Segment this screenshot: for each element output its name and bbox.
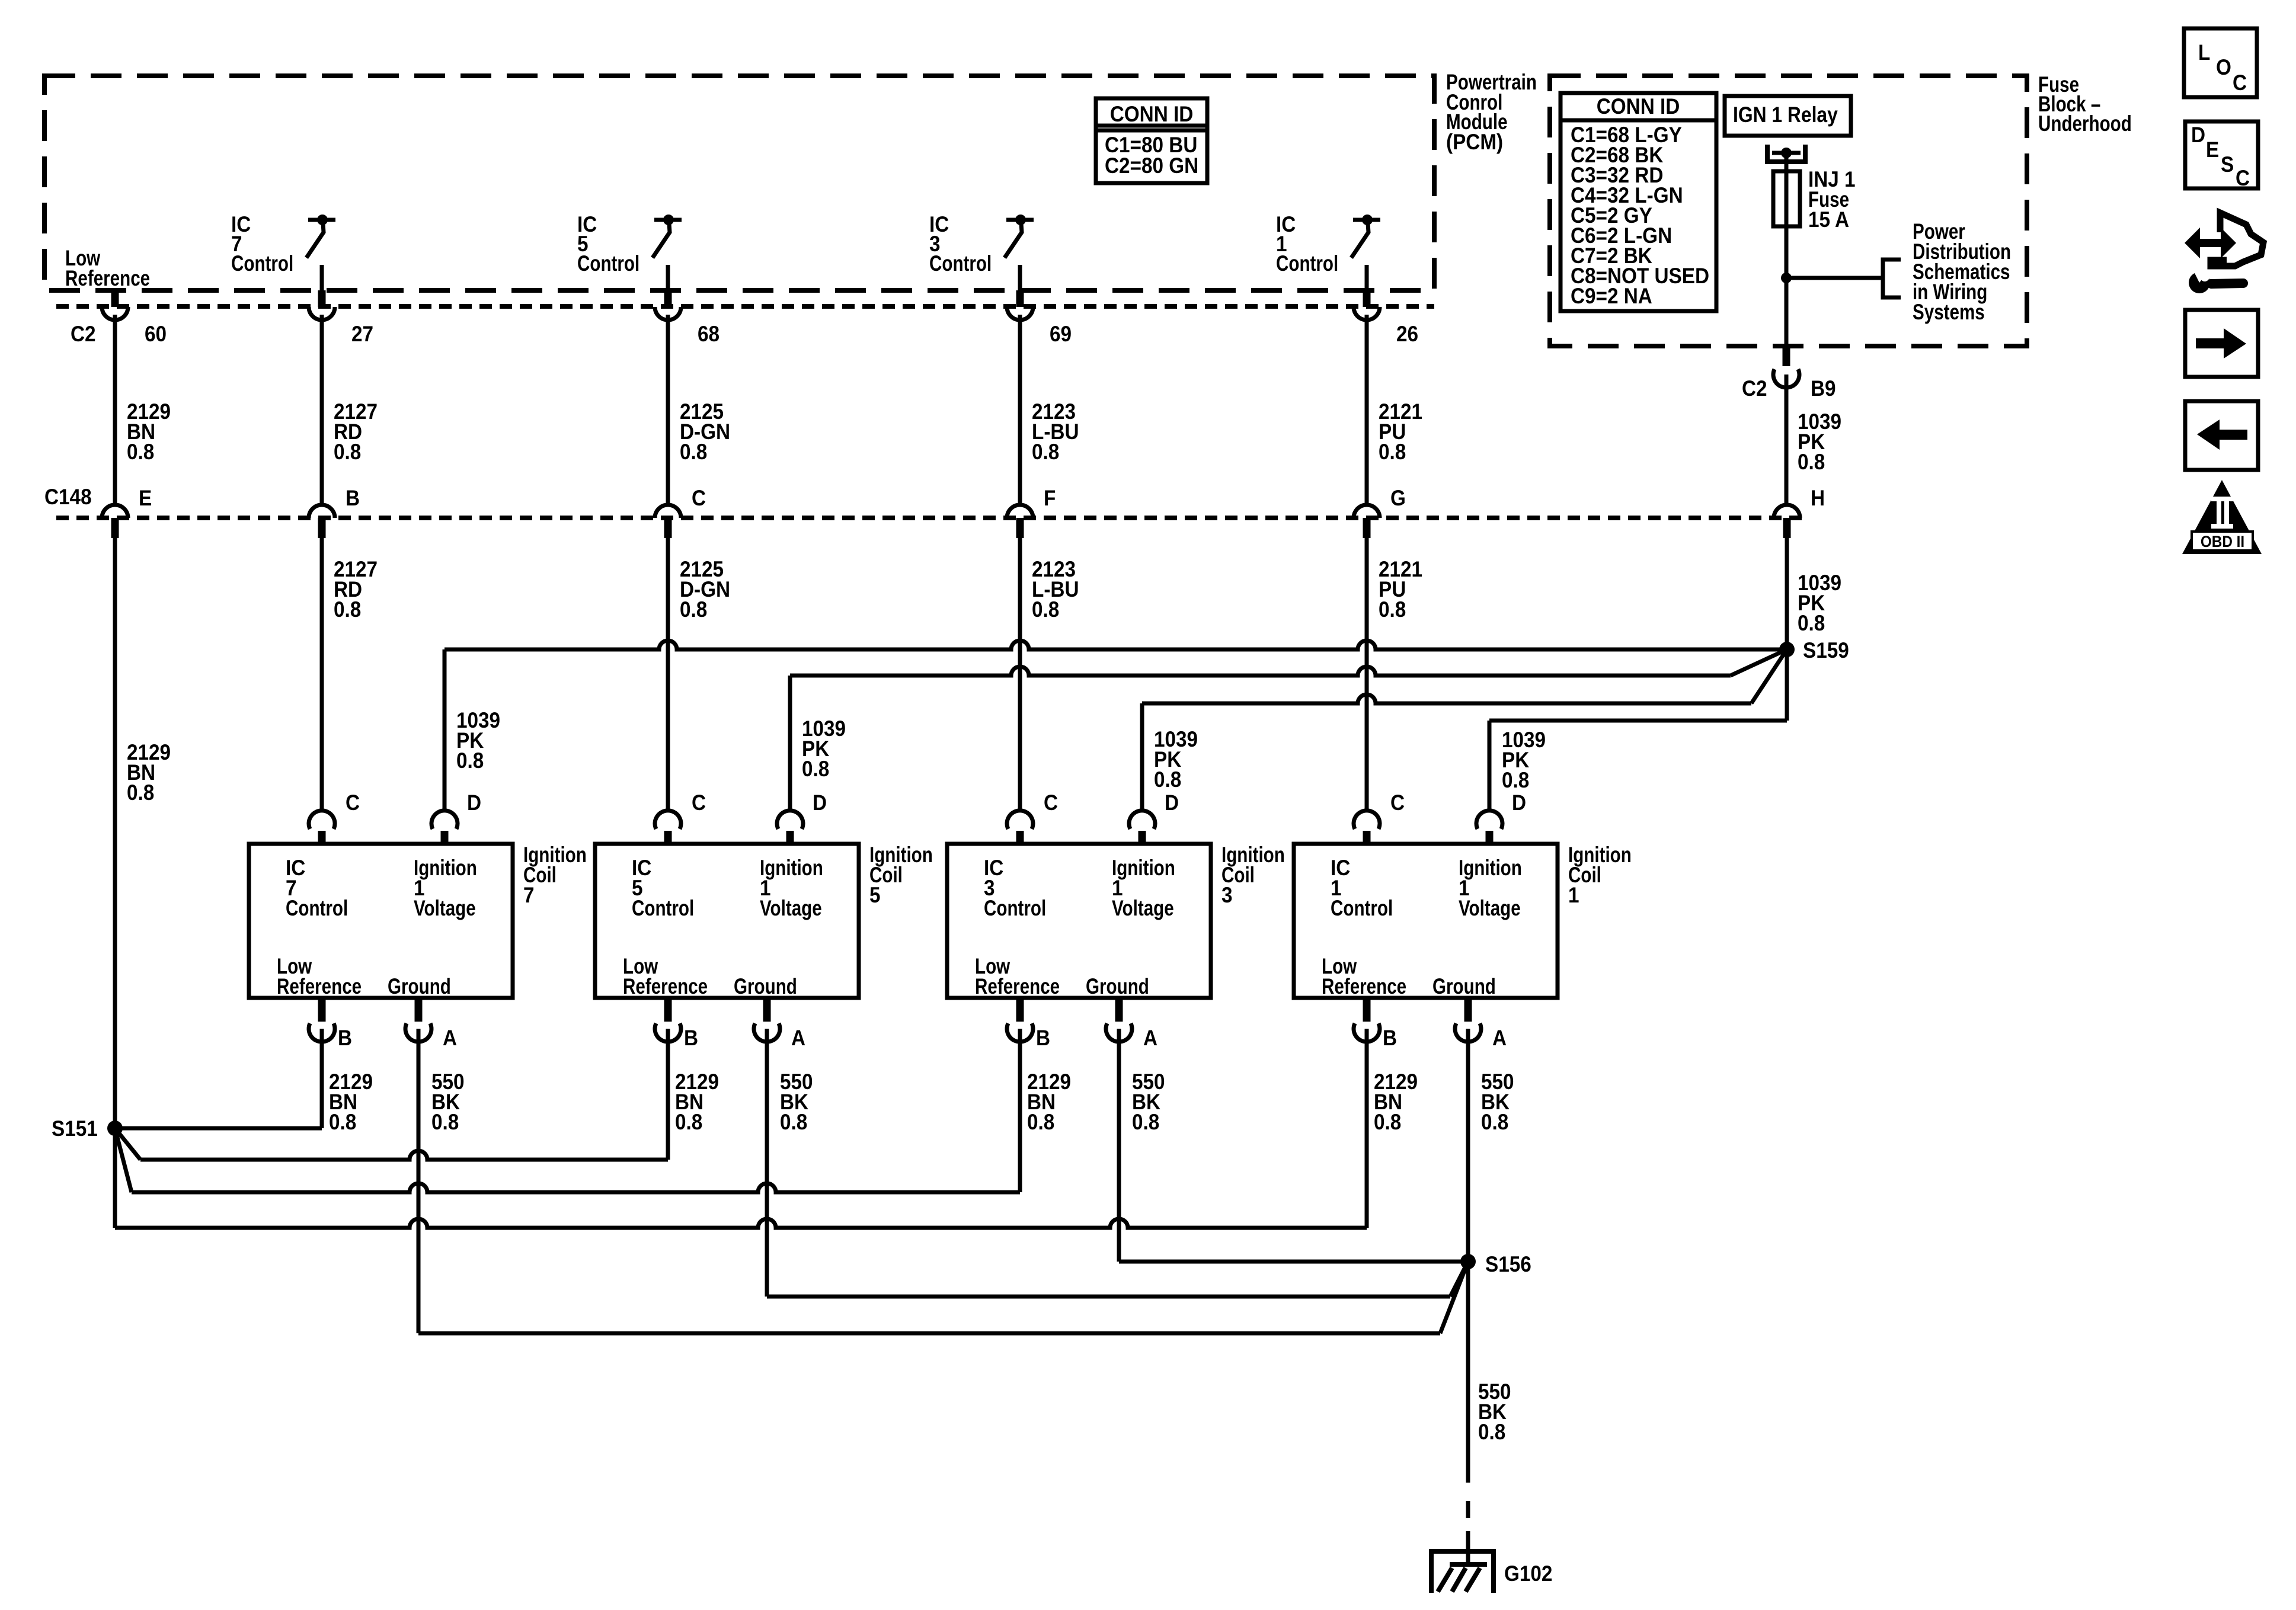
svg-text:Voltage: Voltage bbox=[414, 897, 476, 921]
svg-text:Reference: Reference bbox=[65, 267, 150, 291]
svg-text:26: 26 bbox=[1396, 322, 1418, 346]
svg-text:IGN 1 Relay: IGN 1 Relay bbox=[1733, 103, 1838, 127]
svg-text:0.8: 0.8 bbox=[431, 1110, 459, 1134]
svg-text:O: O bbox=[2216, 55, 2231, 79]
wire 550 BK below coil 7 pin A bbox=[431, 1070, 465, 1134]
wire 2129 BN below coil 7 pin B bbox=[329, 1070, 373, 1134]
wire 2125 D-GN from C148 to ignition coil bbox=[668, 538, 730, 812]
svg-text:S151: S151 bbox=[52, 1116, 98, 1141]
svg-text:OBD II: OBD II bbox=[2201, 533, 2244, 550]
connector C148 pin B bbox=[309, 486, 360, 538]
wire 2125 D-GN from C2 to C148 bbox=[668, 315, 730, 504]
svg-text:Voltage: Voltage bbox=[1112, 897, 1174, 921]
svg-text:0.8: 0.8 bbox=[1132, 1110, 1159, 1134]
svg-text:B: B bbox=[338, 1026, 352, 1050]
branch to Power Distribution Schematics reference bbox=[1786, 220, 2011, 325]
svg-text:0.8: 0.8 bbox=[127, 780, 154, 805]
svg-text:D: D bbox=[467, 790, 481, 815]
coil 3 pin A connector bbox=[1106, 998, 1157, 1050]
connector C148 pin E bbox=[102, 486, 152, 538]
ignition coil 1 box bbox=[1294, 843, 1632, 999]
svg-text:C2: C2 bbox=[71, 322, 96, 346]
wire 1039 PK riser to coil pin D at x=1333 bbox=[790, 676, 846, 812]
bus wire from S159 to ignition coil 5 pin D bbox=[790, 649, 1787, 676]
svg-text:1: 1 bbox=[1568, 883, 1579, 907]
svg-text:S159: S159 bbox=[1803, 638, 1849, 662]
connector C148 pin H bbox=[1774, 486, 1825, 538]
svg-text:B: B bbox=[1383, 1026, 1397, 1050]
svg-text:Ground: Ground bbox=[388, 975, 451, 999]
svg-text:H: H bbox=[1811, 486, 1825, 510]
svg-text:0.8: 0.8 bbox=[1374, 1110, 1401, 1134]
label Fuse Block - Underhood bbox=[2038, 73, 2132, 136]
svg-text:0.8: 0.8 bbox=[1502, 768, 1529, 792]
icon forward arrow box bbox=[2185, 310, 2258, 377]
ignition coil 5 box bbox=[595, 843, 933, 999]
icon DESC box bbox=[2185, 121, 2258, 190]
svg-text:C9=2 NA: C9=2 NA bbox=[1571, 284, 1652, 308]
bus wire from S159 to ignition coil 3 pin D bbox=[1142, 649, 1787, 703]
connector C2 pin 69 bbox=[1007, 290, 1072, 346]
coil 7 pin A connector bbox=[405, 998, 457, 1050]
svg-text:0.8: 0.8 bbox=[802, 757, 829, 781]
svg-text:Control: Control bbox=[286, 897, 348, 921]
wire from S151 to coil 7 pin B bbox=[115, 1029, 322, 1128]
wire 1039 PK riser to coil pin D at x=750 bbox=[445, 649, 500, 812]
switch IC 3 Control inside PCM bbox=[929, 212, 1034, 290]
Fuse Block - Underhood dashed box bbox=[1550, 76, 2027, 346]
svg-text:(PCM): (PCM) bbox=[1446, 130, 1503, 154]
svg-text:Reference: Reference bbox=[975, 975, 1060, 999]
icon diagnostic wrench with arrows bbox=[2185, 213, 2263, 293]
wire 2129 BN below coil 3 pin B bbox=[1027, 1070, 1071, 1134]
svg-text:D: D bbox=[2191, 123, 2205, 147]
svg-text:0.8: 0.8 bbox=[780, 1110, 807, 1134]
ignition coil 3 box bbox=[947, 843, 1285, 999]
connector C148 pin F bbox=[1007, 486, 1056, 538]
svg-text:27: 27 bbox=[351, 322, 373, 346]
Fuse block CONN ID table bbox=[1560, 93, 1716, 311]
connector C2 dotted line bbox=[56, 306, 1434, 346]
svg-text:C148: C148 bbox=[44, 485, 92, 509]
splice S159 bbox=[1779, 638, 1849, 662]
wire 550 BK below coil 5 pin A bbox=[780, 1070, 813, 1134]
svg-text:5: 5 bbox=[869, 883, 881, 907]
svg-text:0.8: 0.8 bbox=[1027, 1110, 1054, 1134]
coil 1 pin B connector bbox=[1354, 998, 1397, 1050]
svg-text:C2: C2 bbox=[1742, 376, 1767, 401]
svg-text:15 A: 15 A bbox=[1808, 207, 1849, 232]
svg-text:A: A bbox=[791, 1026, 805, 1050]
svg-text:S156: S156 bbox=[1485, 1252, 1531, 1276]
svg-text:G: G bbox=[1390, 486, 1406, 510]
wire 1039 PK riser to coil pin D at x=2513 bbox=[1489, 721, 1546, 812]
svg-text:B: B bbox=[346, 486, 360, 510]
svg-text:Control: Control bbox=[929, 252, 992, 276]
svg-text:0.8: 0.8 bbox=[334, 597, 361, 622]
svg-text:D: D bbox=[1165, 790, 1179, 815]
icon LOC box bbox=[2184, 28, 2257, 97]
wire 2123 L-BU from C148 to ignition coil bbox=[1020, 538, 1079, 812]
bus wire from S159 to ignition coil 1 pin D bbox=[1489, 649, 1787, 721]
svg-text:B: B bbox=[1036, 1026, 1050, 1050]
icon back arrow box bbox=[2185, 401, 2258, 470]
svg-text:0.8: 0.8 bbox=[1032, 440, 1059, 464]
svg-text:A: A bbox=[443, 1026, 457, 1050]
svg-text:0.8: 0.8 bbox=[334, 440, 361, 464]
svg-text:0.8: 0.8 bbox=[680, 597, 707, 622]
svg-text:C: C bbox=[1044, 790, 1058, 815]
ground G102 bbox=[1429, 1551, 1552, 1593]
PCM pin label Low Reference bbox=[65, 247, 150, 291]
relay IGN 1 Relay box bbox=[1725, 96, 1851, 136]
svg-text:B: B bbox=[684, 1026, 698, 1050]
switch IC 1 Control inside PCM bbox=[1276, 212, 1380, 290]
svg-text:3: 3 bbox=[1221, 883, 1233, 907]
bus wire from S159 to ignition coil 7 pin D bbox=[445, 641, 1787, 649]
relay contact bracket bbox=[1767, 145, 1805, 171]
svg-text:G102: G102 bbox=[1504, 1561, 1552, 1586]
svg-text:E: E bbox=[139, 486, 152, 510]
wire from S151 to coil 3 pin B bbox=[115, 1029, 1020, 1192]
svg-text:0.8: 0.8 bbox=[1481, 1110, 1508, 1134]
svg-text:60: 60 bbox=[145, 322, 167, 346]
svg-text:C2=80 GN: C2=80 GN bbox=[1105, 153, 1198, 178]
fuse INJ 1 Fuse 15 A bbox=[1773, 167, 1856, 232]
svg-text:Control: Control bbox=[984, 897, 1046, 921]
connector C2 pin B9 below fuse block bbox=[1742, 346, 1836, 401]
svg-text:Control: Control bbox=[632, 897, 694, 921]
svg-text:A: A bbox=[1143, 1026, 1157, 1050]
svg-text:CONN ID: CONN ID bbox=[1110, 102, 1194, 126]
svg-text:Control: Control bbox=[231, 252, 293, 276]
svg-text:Reference: Reference bbox=[1322, 975, 1406, 999]
wire 2121 PU from C148 to ignition coil bbox=[1367, 538, 1422, 812]
wire 2121 PU from C2 to C148 bbox=[1367, 315, 1422, 504]
icon OBD II triangle bbox=[2182, 480, 2262, 554]
svg-text:CONN ID: CONN ID bbox=[1597, 94, 1680, 119]
svg-text:L: L bbox=[2198, 40, 2210, 65]
svg-text:0.8: 0.8 bbox=[675, 1110, 702, 1134]
svg-text:C: C bbox=[346, 790, 360, 815]
coil 7 pin C connector bbox=[309, 790, 360, 844]
wire 550 BK below coil 3 pin A bbox=[1132, 1070, 1165, 1134]
connector C2 pin 68 bbox=[655, 290, 720, 346]
connector C2 pin 26 bbox=[1354, 290, 1418, 346]
wire 2129 BN below coil 1 pin B bbox=[1374, 1070, 1418, 1134]
wire 1039 PK from C2/B9 to C148 pin H bbox=[1786, 375, 1841, 504]
wire 2123 L-BU from C2 to C148 bbox=[1020, 315, 1079, 504]
svg-text:S: S bbox=[2221, 152, 2234, 177]
svg-text:B9: B9 bbox=[1811, 376, 1836, 401]
svg-text:Control: Control bbox=[1331, 897, 1393, 921]
svg-text:D: D bbox=[813, 790, 827, 815]
wire 2127 RD from C2 to C148 bbox=[322, 315, 378, 504]
wire 1039 PK from C148 pin H to splice S159 bbox=[1787, 538, 1841, 649]
svg-text:E: E bbox=[2206, 137, 2219, 162]
splice S156 bbox=[1460, 1252, 1531, 1276]
wire from fuse to fuse block edge with junction bbox=[1781, 226, 1792, 346]
svg-text:Ground: Ground bbox=[734, 975, 797, 999]
label Powertrain Conrol Module (PCM) bbox=[1446, 71, 1537, 154]
wire from coil 7 pin A to S156 bbox=[418, 1029, 1468, 1333]
switch IC 5 Control inside PCM bbox=[577, 212, 682, 290]
svg-text:0.8: 0.8 bbox=[1798, 450, 1825, 474]
svg-text:Systems: Systems bbox=[1913, 300, 1985, 325]
svg-text:0.8: 0.8 bbox=[1379, 597, 1406, 622]
svg-text:0.8: 0.8 bbox=[1798, 611, 1825, 635]
svg-text:C: C bbox=[1390, 790, 1405, 815]
svg-text:Control: Control bbox=[577, 252, 639, 276]
svg-text:F: F bbox=[1044, 486, 1056, 510]
coil 7 pin B connector bbox=[309, 998, 352, 1050]
svg-text:Ground: Ground bbox=[1086, 975, 1149, 999]
connector C148 dotted line bbox=[44, 485, 1802, 518]
Powertrain Control Module (PCM) dashed box bbox=[44, 76, 1434, 290]
wire 1039 PK riser to coil pin D at x=1927 bbox=[1142, 703, 1198, 812]
svg-text:0.8: 0.8 bbox=[1032, 597, 1059, 622]
svg-text:D: D bbox=[1512, 790, 1526, 815]
wire from coil 1 pin A to S156 bbox=[1466, 1029, 1470, 1262]
svg-text:0.8: 0.8 bbox=[456, 748, 484, 773]
svg-text:C: C bbox=[692, 486, 706, 510]
wire 550 BK below coil 1 pin A bbox=[1481, 1070, 1514, 1134]
svg-text:A: A bbox=[1492, 1026, 1507, 1050]
wire from S151 to coil 5 pin B bbox=[115, 1029, 668, 1160]
svg-text:Ground: Ground bbox=[1432, 975, 1496, 999]
wire 2129 BN from C2 to C148 bbox=[115, 315, 171, 504]
wire from coil 5 pin A to S156 bbox=[767, 1029, 1468, 1297]
coil 7 pin D connector bbox=[431, 790, 481, 844]
svg-text:7: 7 bbox=[523, 883, 535, 907]
svg-text:0.8: 0.8 bbox=[1379, 440, 1406, 464]
svg-text:0.8: 0.8 bbox=[680, 440, 707, 464]
connector C2 pin 27 bbox=[309, 290, 373, 346]
splice S151 bbox=[52, 1116, 123, 1141]
wire 2129 BN from C148 pin E to splice S151 bbox=[115, 538, 171, 1128]
svg-text:C: C bbox=[692, 790, 706, 815]
wire 550 BK from S156 to ground G102 bbox=[1468, 1262, 1511, 1564]
wire 2129 BN below coil 5 pin B bbox=[675, 1070, 719, 1134]
coil 3 pin D connector bbox=[1129, 790, 1179, 844]
switch IC 7 Control inside PCM bbox=[231, 212, 335, 290]
PCM CONN ID table bbox=[1096, 98, 1207, 183]
wire 2127 RD from C148 to ignition coil bbox=[322, 538, 378, 812]
svg-text:0.8: 0.8 bbox=[1478, 1420, 1505, 1444]
svg-text:C: C bbox=[2236, 166, 2250, 190]
svg-text:68: 68 bbox=[698, 322, 720, 346]
coil 3 pin C connector bbox=[1007, 790, 1058, 844]
ignition coil 7 box bbox=[249, 843, 587, 999]
svg-text:0.8: 0.8 bbox=[1154, 767, 1181, 792]
wire from coil 3 pin A to S156 bbox=[1119, 1029, 1468, 1262]
svg-text:C: C bbox=[2233, 71, 2247, 95]
connector C148 pin C bbox=[655, 486, 706, 538]
coil 5 pin B connector bbox=[655, 998, 698, 1050]
svg-text:Underhood: Underhood bbox=[2038, 112, 2132, 136]
svg-text:Control: Control bbox=[1276, 252, 1338, 276]
svg-text:Voltage: Voltage bbox=[760, 897, 822, 921]
svg-text:Reference: Reference bbox=[623, 975, 708, 999]
coil 1 pin A connector bbox=[1455, 998, 1507, 1050]
coil 1 pin C connector bbox=[1354, 790, 1405, 844]
svg-text:Reference: Reference bbox=[277, 975, 362, 999]
coil 5 pin C connector bbox=[655, 790, 706, 844]
connector C2 pin 60 bbox=[102, 290, 167, 346]
wire from S151 to coil 1 pin B bbox=[115, 1029, 1367, 1228]
svg-text:Voltage: Voltage bbox=[1459, 897, 1521, 921]
svg-text:69: 69 bbox=[1050, 322, 1072, 346]
coil 1 pin D connector bbox=[1476, 790, 1526, 844]
connector C148 pin G bbox=[1354, 486, 1406, 538]
coil 3 pin B connector bbox=[1007, 998, 1050, 1050]
svg-text:0.8: 0.8 bbox=[127, 440, 154, 464]
svg-text:0.8: 0.8 bbox=[329, 1110, 356, 1134]
coil 5 pin A connector bbox=[754, 998, 805, 1050]
coil 5 pin D connector bbox=[777, 790, 827, 844]
